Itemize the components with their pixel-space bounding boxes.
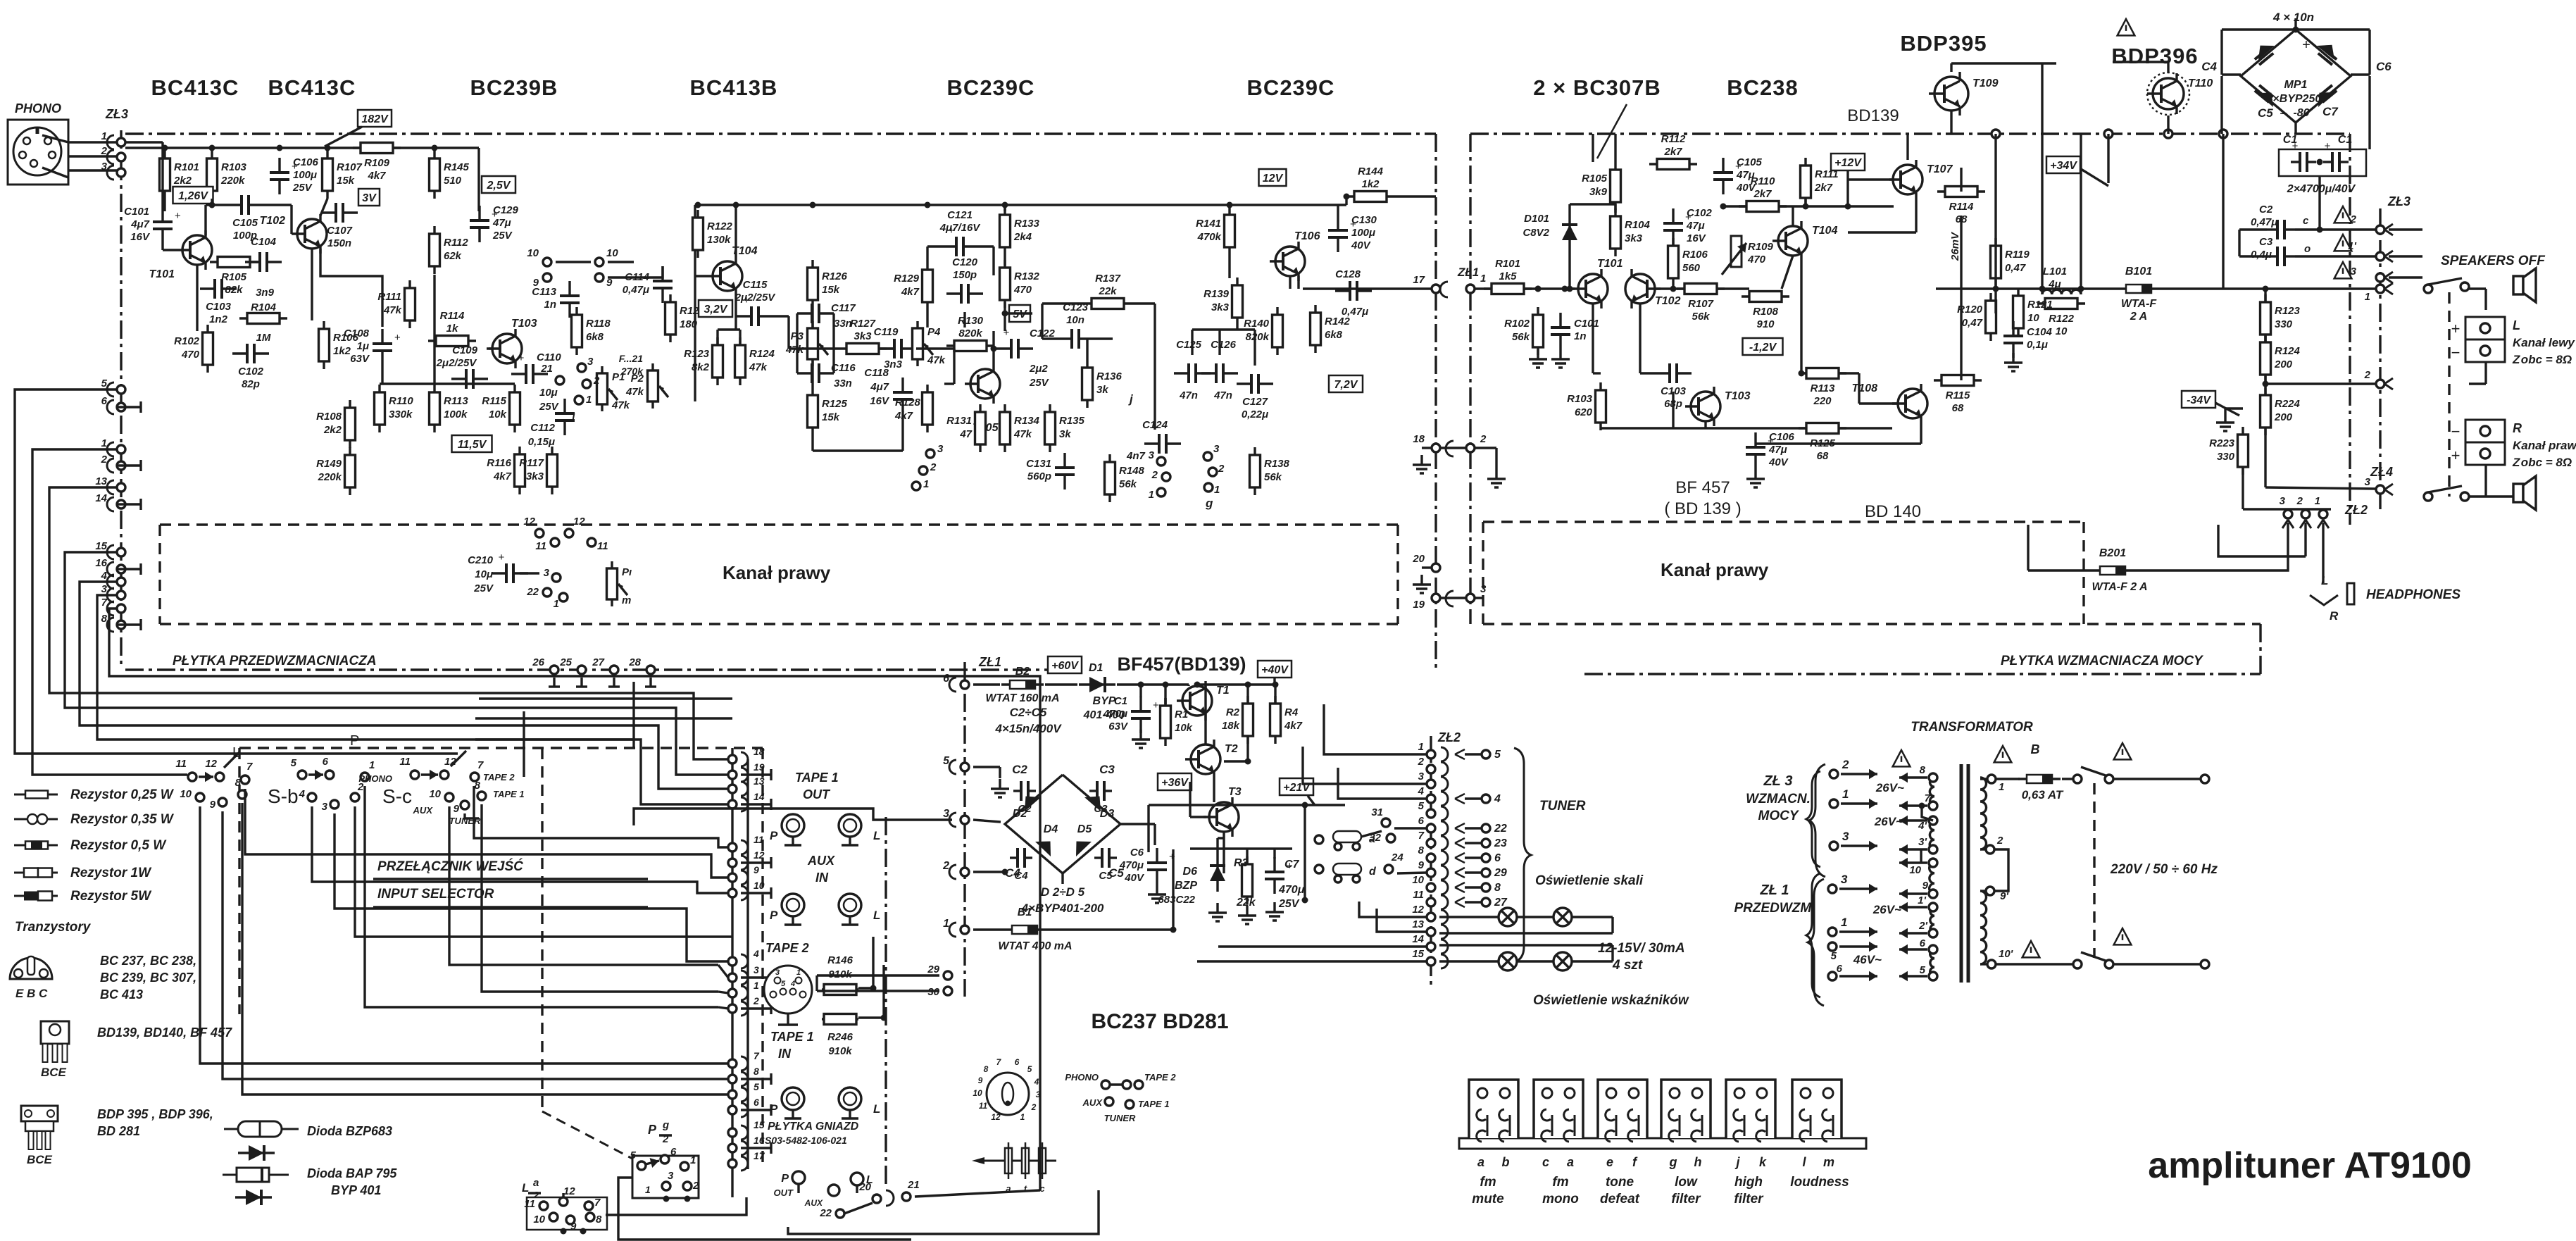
wire bbox=[811, 359, 813, 387]
connector pin 1 bbox=[107, 135, 114, 149]
svg-text:2 × BC307B: 2 × BC307B bbox=[1533, 75, 1661, 100]
svg-text:R102: R102 bbox=[174, 335, 200, 347]
wire bbox=[2222, 134, 2224, 289]
tap wire arrow bbox=[1899, 975, 1927, 977]
svg-text:C112: C112 bbox=[530, 422, 555, 434]
wire bbox=[953, 349, 955, 384]
ground bbox=[2012, 353, 2014, 363]
svg-text:C115: C115 bbox=[743, 279, 768, 291]
svg-text:T2: T2 bbox=[1225, 743, 1238, 755]
wire bbox=[978, 245, 994, 247]
svg-text:tone: tone bbox=[1606, 1175, 1634, 1190]
svg-text:PHONO: PHONO bbox=[358, 773, 392, 784]
svg-text:2: 2 bbox=[1418, 756, 1425, 768]
wire bbox=[2368, 30, 2370, 75]
svg-text:BDP 395 , BDP 396,: BDP 395 , BDP 396, bbox=[97, 1107, 213, 1121]
svg-text:C106: C106 bbox=[1769, 431, 1795, 443]
resistor bbox=[822, 1018, 858, 1020]
jack P tape1 out bbox=[782, 814, 804, 837]
svg-text:11: 11 bbox=[979, 1101, 988, 1111]
pin 7 bbox=[470, 773, 479, 781]
socket pin 14 bbox=[741, 797, 748, 811]
warning triangle bbox=[2334, 206, 2352, 223]
wire bbox=[915, 1190, 1040, 1197]
power amp board outline top bbox=[1470, 132, 2350, 135]
potentiometer P&#305; bbox=[611, 561, 613, 606]
svg-text:3: 3 bbox=[1149, 449, 1155, 461]
wire bbox=[2264, 428, 2266, 487]
svg-text:ZŁ3: ZŁ3 bbox=[105, 107, 128, 121]
wire bbox=[1889, 178, 1894, 180]
wire bbox=[741, 773, 771, 775]
svg-text:T107: T107 bbox=[1927, 163, 1953, 175]
ground bbox=[1420, 455, 1423, 465]
pin 2 bbox=[2376, 380, 2384, 388]
svg-text:R122: R122 bbox=[2049, 313, 2075, 325]
svg-text:3k: 3k bbox=[1059, 428, 1071, 440]
junction bbox=[1002, 202, 1008, 208]
resistor R115 bbox=[513, 385, 515, 432]
wire bbox=[887, 347, 894, 349]
wire bbox=[245, 789, 634, 854]
wire bbox=[1570, 203, 1615, 205]
svg-text:7: 7 bbox=[101, 597, 108, 609]
wire bbox=[42, 135, 68, 142]
connector pin Zl2-2 bbox=[1427, 765, 1435, 773]
svg-text:62k: 62k bbox=[444, 250, 462, 262]
svg-text:INPUT SELECTOR: INPUT SELECTOR bbox=[377, 887, 494, 902]
svg-text:8: 8 bbox=[984, 1064, 989, 1074]
diode D4 bbox=[1035, 842, 1051, 857]
svg-text:R148: R148 bbox=[1119, 465, 1145, 477]
svg-text:0,63 AT: 0,63 AT bbox=[2022, 788, 2064, 802]
svg-text:filter: filter bbox=[1671, 1192, 1701, 1206]
svg-text:10: 10 bbox=[2027, 312, 2039, 324]
capacitor C107 bbox=[321, 211, 336, 213]
wire bbox=[1846, 170, 1849, 206]
wire bbox=[1149, 804, 1345, 806]
svg-text:R109: R109 bbox=[364, 157, 390, 169]
transistor T103 bbox=[1691, 392, 1720, 421]
potentiometer P2 bbox=[651, 363, 654, 409]
fuse B 0,63AT bbox=[2018, 778, 2061, 780]
tap wire arrow bbox=[1899, 819, 1927, 821]
svg-text:56k: 56k bbox=[1119, 478, 1137, 490]
wire bbox=[649, 678, 651, 687]
wire bbox=[1465, 886, 1481, 888]
resistor R108 bbox=[1742, 295, 1789, 297]
voltage label 12V bbox=[1259, 169, 1287, 186]
power amp Kanal box right bbox=[2082, 522, 2084, 624]
svg-text:470: 470 bbox=[181, 349, 200, 361]
switch unit 4 bbox=[1661, 1080, 1711, 1138]
wire with arrow bbox=[646, 1161, 659, 1164]
resistor R108 bbox=[349, 400, 351, 448]
resistor bbox=[239, 317, 287, 319]
capacitor C5 on bridge edge bbox=[2255, 91, 2269, 102]
svg-text:R104: R104 bbox=[1625, 219, 1651, 231]
svg-text:+: + bbox=[2302, 37, 2311, 53]
connector pin Zl2-5 bbox=[1427, 809, 1435, 818]
warning triangle bbox=[2334, 262, 2352, 278]
pin 3 bbox=[2376, 485, 2384, 494]
lamp skala 1 bbox=[1499, 908, 1517, 926]
wire bbox=[1218, 945, 1427, 947]
wire bbox=[1361, 831, 1382, 837]
wire bbox=[1273, 678, 1275, 685]
connector pin 2 bbox=[107, 459, 114, 473]
svg-text:BD139, BD140, BF 457: BD139, BD140, BF 457 bbox=[97, 1025, 232, 1040]
wire bbox=[1303, 287, 1432, 289]
svg-text:Rezystor 5W: Rezystor 5W bbox=[70, 889, 152, 904]
wire bbox=[1153, 304, 1156, 373]
svg-text:R138: R138 bbox=[1264, 458, 1290, 470]
wire bbox=[1246, 848, 1248, 864]
svg-text:C110: C110 bbox=[537, 351, 561, 363]
svg-text:R133: R133 bbox=[1014, 218, 1040, 230]
svg-text:26V~: 26V~ bbox=[1875, 781, 1904, 794]
wire bbox=[474, 786, 648, 838]
junction bbox=[2317, 227, 2323, 233]
junction bbox=[209, 145, 215, 151]
capacitor C3 bbox=[1089, 790, 1097, 792]
svg-text:ZŁ2: ZŁ2 bbox=[1437, 730, 1461, 744]
warning triangle bbox=[2118, 19, 2135, 35]
svg-text:+40V: +40V bbox=[1261, 664, 1289, 676]
wire bbox=[117, 503, 141, 505]
wire bbox=[1465, 901, 1481, 903]
jack P tape1 in bbox=[782, 1087, 804, 1110]
legend resistor symbol Rezystor 0,25 W bbox=[14, 794, 58, 796]
resistor R107 bbox=[1677, 287, 1725, 289]
resistor R106 bbox=[1672, 238, 1674, 286]
svg-text:3: 3 bbox=[754, 964, 759, 975]
pin Zl1-1 bbox=[1828, 928, 1837, 936]
svg-text:R110: R110 bbox=[389, 395, 413, 407]
wire bbox=[580, 678, 582, 687]
wire bbox=[1003, 255, 1006, 266]
wire bbox=[1996, 963, 2073, 965]
voltage label 1,26V bbox=[173, 187, 213, 204]
wire bbox=[2222, 28, 2370, 30]
switch unit 3 bbox=[1598, 1080, 1647, 1138]
wire bbox=[1253, 330, 1256, 366]
svg-text:47μ: 47μ bbox=[1768, 444, 1787, 456]
svg-text:R149: R149 bbox=[316, 458, 342, 470]
feedthrough bbox=[2219, 130, 2227, 138]
svg-text:C106: C106 bbox=[293, 156, 319, 168]
pin 6 bbox=[325, 771, 334, 779]
svg-text:C1: C1 bbox=[1114, 695, 1127, 707]
wire bbox=[1994, 849, 2008, 891]
junction bbox=[1273, 682, 1279, 688]
resistor R132 bbox=[1003, 260, 1006, 308]
resistor R142 bbox=[1314, 305, 1316, 353]
pin 2 bbox=[919, 466, 927, 475]
svg-text:26V~: 26V~ bbox=[1874, 815, 1903, 828]
capacitor C120 bbox=[946, 292, 961, 294]
socket pin 10 bbox=[741, 886, 748, 900]
svg-text:MOCY: MOCY bbox=[1758, 809, 1800, 823]
svg-text:0,47: 0,47 bbox=[2005, 262, 2026, 274]
voltage label 7,2V bbox=[1329, 375, 1363, 392]
resistor R130 bbox=[946, 344, 994, 347]
svg-text:C6: C6 bbox=[2376, 60, 2391, 73]
svg-text:683C22: 683C22 bbox=[1158, 894, 1195, 906]
svg-text:BC237 BD281: BC237 BD281 bbox=[1091, 1010, 1228, 1033]
svg-text:3: 3 bbox=[2351, 266, 2357, 277]
wire bbox=[608, 266, 663, 277]
junction bbox=[1803, 204, 1809, 210]
wire bbox=[49, 487, 727, 759]
pin 9 bbox=[543, 273, 551, 282]
wire bus bbox=[479, 676, 1040, 930]
svg-text:C2: C2 bbox=[2259, 204, 2273, 216]
switch contact bbox=[2073, 960, 2082, 968]
tuner line pin 5 bbox=[1482, 750, 1490, 759]
legend resistor symbol Rezystor 0,35 W bbox=[14, 818, 58, 821]
jumper pin 26 bbox=[550, 666, 558, 674]
svg-text:40V: 40V bbox=[1351, 239, 1372, 251]
transistor T107 bbox=[1893, 165, 1922, 194]
svg-text:19: 19 bbox=[754, 761, 765, 773]
wire bbox=[832, 313, 834, 373]
wire bus bbox=[1039, 930, 1041, 1190]
diode D2 bbox=[1025, 797, 1041, 812]
svg-text:P: P bbox=[770, 1102, 778, 1116]
pin 5 bbox=[298, 771, 306, 779]
svg-text:16V: 16V bbox=[870, 395, 890, 407]
svg-text:10: 10 bbox=[606, 247, 618, 259]
svg-text:3k3: 3k3 bbox=[1625, 232, 1643, 244]
svg-text:330: 330 bbox=[2217, 451, 2235, 463]
wire bbox=[1246, 685, 1249, 703]
tap wire arrow bbox=[1899, 804, 1927, 806]
secondary winding bbox=[1930, 821, 1934, 849]
potentiometer P3 bbox=[811, 321, 813, 366]
svg-text:C105: C105 bbox=[1737, 156, 1763, 168]
svg-text:R112: R112 bbox=[1661, 133, 1686, 145]
wire bbox=[1338, 768, 1427, 799]
wire with arrow bbox=[1839, 975, 1877, 977]
svg-text:TAPE 1: TAPE 1 bbox=[770, 1030, 814, 1044]
pin Zl1-5 bbox=[1828, 942, 1837, 951]
svg-text:D 2÷D 5: D 2÷D 5 bbox=[1041, 885, 1085, 899]
socket pin 13 bbox=[741, 782, 748, 796]
wire bbox=[2295, 255, 2376, 257]
svg-text:R113: R113 bbox=[444, 395, 468, 407]
junction bbox=[1002, 869, 1008, 875]
wire bbox=[489, 347, 493, 349]
svg-text:12: 12 bbox=[523, 516, 535, 528]
transformer core bbox=[1960, 764, 1963, 983]
wire bbox=[773, 315, 789, 317]
resistor R110 bbox=[1739, 205, 1787, 207]
resistor R114 bbox=[1937, 190, 1985, 192]
capacitor C108 bbox=[381, 329, 383, 344]
wire bus bbox=[634, 854, 728, 878]
svg-text:Z obc = 8Ω: Z obc = 8Ω bbox=[2512, 353, 2572, 366]
wire bbox=[1782, 256, 1793, 289]
svg-text:R109: R109 bbox=[1748, 241, 1774, 253]
connector Zl3 column bbox=[120, 130, 122, 669]
svg-text:T101: T101 bbox=[1597, 258, 1623, 270]
capacitor C6 on bridge edge bbox=[2318, 54, 2332, 65]
svg-text:R: R bbox=[2330, 609, 2339, 623]
junction bbox=[1302, 897, 1308, 904]
voltage label +36V bbox=[1158, 773, 1192, 790]
svg-text:Kanał prawy: Kanał prawy bbox=[723, 562, 831, 583]
svg-text:D4: D4 bbox=[1044, 823, 1058, 835]
svg-text:2': 2' bbox=[1918, 920, 1927, 932]
wire bbox=[1439, 944, 1613, 946]
wire bbox=[1439, 960, 1499, 962]
svg-text:16: 16 bbox=[754, 1135, 765, 1146]
power amp board outline right bbox=[2349, 134, 2351, 525]
svg-text:2: 2 bbox=[1842, 758, 1849, 771]
wire bbox=[2113, 778, 2201, 780]
bridge diamond bbox=[2241, 30, 2351, 123]
svg-text:63V: 63V bbox=[350, 353, 370, 365]
pin 21 bbox=[556, 376, 564, 385]
pin 1 bbox=[575, 396, 583, 404]
svg-text:820k: 820k bbox=[1246, 331, 1270, 343]
svg-text:R101: R101 bbox=[174, 161, 199, 173]
bracket Zl3 bbox=[1806, 771, 1820, 867]
svg-text:13: 13 bbox=[754, 775, 765, 787]
svg-text:3: 3 bbox=[2280, 495, 2286, 507]
svg-text:TUNER: TUNER bbox=[1104, 1113, 1136, 1123]
terminal block right channel bbox=[2465, 420, 2505, 465]
svg-text:12: 12 bbox=[205, 758, 217, 770]
svg-text:20: 20 bbox=[1412, 553, 1425, 565]
svg-text:g: g bbox=[1669, 1155, 1677, 1169]
svg-text:C3: C3 bbox=[2259, 236, 2273, 248]
wire bbox=[117, 406, 141, 408]
svg-text:20: 20 bbox=[858, 1181, 871, 1193]
svg-text:2: 2 bbox=[101, 454, 108, 466]
junction bbox=[1163, 682, 1169, 688]
wire bbox=[2243, 508, 2331, 510]
svg-text:T103: T103 bbox=[511, 318, 537, 330]
wire bbox=[1601, 427, 1806, 429]
svg-text:R2: R2 bbox=[1226, 706, 1240, 718]
svg-text:2: 2 bbox=[1151, 469, 1158, 481]
wire bbox=[856, 1185, 858, 1193]
transistor T110 outer bbox=[2147, 73, 2189, 115]
socket pin 17 bbox=[741, 1156, 748, 1171]
socket pin 1 bbox=[741, 986, 748, 1000]
svg-text:TUNER: TUNER bbox=[1539, 799, 1586, 813]
capacitor C113 bbox=[568, 281, 570, 296]
svg-text:D3: D3 bbox=[1100, 808, 1115, 820]
wire bbox=[1672, 392, 1674, 428]
resistor R110 bbox=[378, 385, 380, 432]
wire bbox=[2389, 228, 2422, 230]
wire bbox=[1086, 339, 1088, 360]
resistor R111 bbox=[1804, 158, 1806, 206]
svg-text:10μ: 10μ bbox=[475, 568, 493, 580]
power amp Kanal prawy box left bbox=[1482, 522, 1484, 624]
wire bbox=[1994, 134, 1996, 238]
pin 2 bbox=[2376, 225, 2384, 234]
svg-text:18k: 18k bbox=[1222, 720, 1240, 732]
wire bbox=[1153, 824, 1156, 845]
wire bbox=[1980, 848, 1986, 850]
wire bbox=[1003, 302, 1006, 331]
svg-text:R122: R122 bbox=[707, 220, 733, 232]
svg-text:8: 8 bbox=[1418, 844, 1425, 856]
voltage label 11,5V bbox=[452, 435, 492, 452]
resistor R104 bbox=[1614, 208, 1616, 256]
resistor R145 bbox=[433, 151, 435, 199]
junction bbox=[1535, 286, 1542, 292]
wire bbox=[1440, 447, 1466, 449]
wire bbox=[858, 1016, 884, 1018]
svg-text:12V: 12V bbox=[1263, 173, 1284, 185]
svg-text:10n: 10n bbox=[1066, 314, 1084, 326]
resistor R224 bbox=[2264, 387, 2266, 435]
preamp board outline top bbox=[125, 132, 1436, 135]
svg-text:T103: T103 bbox=[1725, 390, 1751, 402]
svg-text:56k: 56k bbox=[1512, 331, 1530, 343]
svg-text:D2: D2 bbox=[1013, 808, 1027, 820]
svg-text:3: 3 bbox=[668, 1170, 674, 1182]
svg-text:R131: R131 bbox=[946, 415, 972, 427]
connector arc bbox=[1446, 591, 1453, 606]
svg-text:C130: C130 bbox=[1351, 214, 1377, 226]
wire bbox=[741, 976, 771, 978]
transistor T110 bbox=[2153, 78, 2184, 109]
svg-text:Rezystor 1W: Rezystor 1W bbox=[70, 866, 152, 880]
svg-text:d: d bbox=[1369, 866, 1377, 878]
connector pin 1 bbox=[949, 923, 956, 937]
fuse B201 WTA-F 2A bbox=[2092, 569, 2134, 571]
capacitor C105 bbox=[1722, 158, 1724, 173]
wire bbox=[944, 382, 954, 385]
socket pin 16 bbox=[741, 1141, 748, 1155]
wire bbox=[311, 249, 313, 320]
connector pin Zl2-13 bbox=[1427, 928, 1435, 936]
svg-text:4×15n/400V: 4×15n/400V bbox=[994, 722, 1062, 735]
svg-text:9: 9 bbox=[978, 1075, 983, 1085]
winding taps bbox=[1929, 773, 1937, 782]
svg-text:220k: 220k bbox=[220, 175, 245, 187]
wire bbox=[1475, 287, 1507, 289]
socket pin 19 bbox=[741, 768, 748, 782]
connector pin 8 bbox=[107, 618, 114, 632]
svg-text:R106: R106 bbox=[1682, 249, 1708, 261]
junction bbox=[580, 1228, 587, 1235]
trimmer resistor R109 bbox=[1731, 236, 1742, 267]
wire bbox=[992, 247, 994, 275]
junction bbox=[2293, 27, 2299, 33]
wire bbox=[263, 204, 292, 206]
voltage label -34V bbox=[2182, 391, 2215, 408]
wire bbox=[1440, 597, 1466, 599]
svg-text:25V: 25V bbox=[292, 182, 313, 194]
svg-text:3k9: 3k9 bbox=[1589, 186, 1608, 198]
svg-text:ZŁ2: ZŁ2 bbox=[2344, 503, 2368, 517]
svg-text:BYP: BYP bbox=[1093, 695, 1116, 707]
svg-text:1μ: 1μ bbox=[357, 340, 369, 352]
svg-text:E B C: E B C bbox=[15, 987, 48, 1000]
pin 9 bbox=[566, 1216, 575, 1224]
svg-text:8: 8 bbox=[475, 780, 481, 792]
svg-text:j: j bbox=[1734, 1155, 1740, 1169]
svg-text:470μ: 470μ bbox=[1278, 884, 1305, 896]
wire with arrow bbox=[308, 773, 323, 775]
